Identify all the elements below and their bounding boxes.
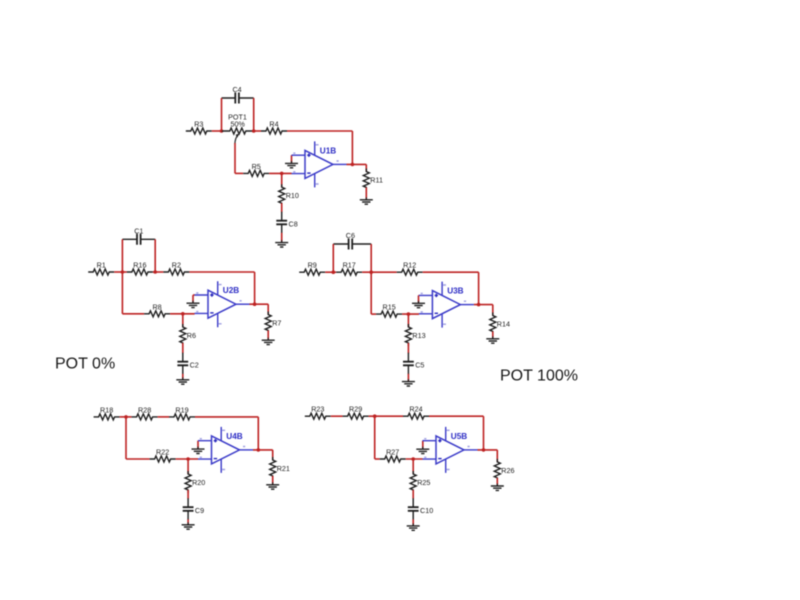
op-amp U1B <box>292 141 347 187</box>
svg-text:R22: R22 <box>156 448 169 457</box>
ground <box>360 197 373 204</box>
wire <box>272 476 274 484</box>
wire <box>407 343 409 353</box>
ground <box>491 484 504 491</box>
svg-text:R13: R13 <box>412 331 425 340</box>
svg-text:R6: R6 <box>187 331 196 340</box>
ground <box>187 301 200 308</box>
wire <box>496 450 498 462</box>
wire <box>406 458 423 460</box>
capacitor C2 <box>177 353 198 374</box>
svg-text:R18: R18 <box>100 405 113 414</box>
svg-text:POT 0%: POT 0% <box>55 356 115 373</box>
wire <box>120 416 132 418</box>
wire <box>492 332 494 339</box>
ground <box>486 336 499 343</box>
node b4 <box>253 302 257 306</box>
wire <box>254 272 256 304</box>
resistor R11 <box>363 169 383 191</box>
svg-text:R2: R2 <box>172 261 181 270</box>
wire <box>267 304 269 314</box>
wire <box>371 313 376 315</box>
svg-text:R10: R10 <box>286 191 299 200</box>
svg-text:U3B: U3B <box>447 287 463 296</box>
wire <box>478 272 480 304</box>
resistor R12 <box>397 261 423 276</box>
ground <box>402 379 415 386</box>
wire <box>418 295 420 302</box>
wire <box>114 271 127 273</box>
svg-text:C4: C4 <box>232 85 241 94</box>
op-amp U3B <box>419 282 474 328</box>
resistor R27 <box>380 448 406 463</box>
resistor R9 <box>299 261 325 276</box>
svg-text:U2B: U2B <box>223 286 239 295</box>
svg-text:C10: C10 <box>420 506 433 515</box>
svg-text:C6: C6 <box>346 231 355 240</box>
svg-text:R9: R9 <box>308 261 317 270</box>
capacitor C10 <box>408 498 433 519</box>
resistor R21 <box>270 457 290 479</box>
ground <box>176 377 189 384</box>
wire <box>154 239 156 272</box>
wire <box>197 441 199 449</box>
wire <box>291 155 293 163</box>
wire <box>492 305 494 316</box>
wire <box>325 271 336 273</box>
wire <box>187 459 189 474</box>
wire <box>272 450 274 460</box>
wire <box>429 415 484 417</box>
svg-text:R20: R20 <box>192 478 205 487</box>
wire <box>375 458 380 460</box>
resistor R16 <box>127 261 153 276</box>
wire <box>422 441 424 449</box>
op-amp U4B <box>198 427 253 473</box>
wire <box>195 416 258 418</box>
wire <box>483 416 485 450</box>
wire <box>423 271 479 273</box>
wire <box>407 374 409 381</box>
wire <box>478 449 498 451</box>
wire <box>365 188 367 200</box>
node a4 <box>351 163 355 167</box>
wire <box>122 313 144 315</box>
resistor R8 <box>144 302 170 317</box>
node c2 <box>369 270 373 274</box>
wire <box>418 294 420 296</box>
capacitor C8 <box>276 212 297 233</box>
svg-text:50%: 50% <box>231 120 246 129</box>
svg-text:C5: C5 <box>415 360 424 369</box>
ground <box>192 447 205 454</box>
node b1 <box>121 270 125 274</box>
ground <box>412 301 425 308</box>
resistor R7 <box>265 312 281 334</box>
wire <box>189 271 254 273</box>
ground <box>407 523 420 530</box>
wire <box>253 449 273 451</box>
svg-text:R15: R15 <box>383 303 396 312</box>
svg-text:R14: R14 <box>497 320 510 329</box>
capacitor C1 <box>122 226 155 244</box>
node e3 <box>482 448 486 452</box>
svg-text:U1B: U1B <box>320 146 336 155</box>
wire <box>267 331 269 340</box>
resistor R29 <box>343 405 369 420</box>
svg-text:R21: R21 <box>277 464 290 473</box>
svg-text:R17: R17 <box>343 261 356 270</box>
wire <box>254 130 261 132</box>
node d2 <box>186 457 190 461</box>
wire <box>158 416 169 418</box>
resistor R20 <box>185 471 205 493</box>
wire <box>331 415 343 417</box>
capacitor C5 <box>403 353 424 374</box>
svg-text:R16: R16 <box>133 261 146 270</box>
svg-text:C2: C2 <box>190 360 199 369</box>
node a1 <box>220 129 224 133</box>
resistor R15 <box>376 303 402 318</box>
resistor R19 <box>169 405 195 420</box>
wire <box>362 271 397 273</box>
svg-text:R26: R26 <box>501 466 514 475</box>
node a3 <box>280 172 284 176</box>
wire <box>250 303 269 305</box>
capacitor C6 <box>333 231 371 249</box>
resistor R1 <box>88 261 114 276</box>
node c3 <box>407 312 411 316</box>
ground <box>182 522 195 529</box>
resistor R2 <box>163 261 189 276</box>
resistor R24 <box>403 405 429 420</box>
node d1 <box>124 415 128 419</box>
wire <box>121 239 123 313</box>
resistor R10 <box>279 184 299 206</box>
wire <box>332 244 334 272</box>
svg-text:R8: R8 <box>152 302 161 311</box>
svg-text:R25: R25 <box>417 478 430 487</box>
wire <box>402 313 419 315</box>
resistor R28 <box>132 405 158 420</box>
ground <box>416 447 429 454</box>
svg-text:R1: R1 <box>97 261 106 270</box>
wire <box>474 304 493 306</box>
wire <box>235 172 243 174</box>
resistor R25 <box>410 471 430 493</box>
svg-text:R7: R7 <box>272 319 281 328</box>
svg-text:R5: R5 <box>252 162 261 171</box>
wire <box>153 271 164 273</box>
wire <box>125 417 127 459</box>
resistor R17 <box>336 261 362 276</box>
resistor R6 <box>180 324 196 346</box>
potentiometer POT1 50% <box>222 128 255 144</box>
wire <box>257 417 259 450</box>
svg-text:R4: R4 <box>269 120 278 129</box>
svg-text:R12: R12 <box>403 261 416 270</box>
svg-text:R3: R3 <box>194 120 203 129</box>
resistor R18 <box>94 405 120 420</box>
resistor R23 <box>305 405 331 420</box>
node b3 <box>181 312 185 316</box>
resistor R22 <box>150 448 176 463</box>
resistor R3 <box>186 120 212 135</box>
resistor R5 <box>243 162 269 177</box>
node e2 <box>411 457 415 461</box>
wire <box>221 98 223 131</box>
wire <box>182 343 184 353</box>
wire <box>212 130 222 132</box>
wire <box>182 374 184 379</box>
node a2 <box>252 129 256 133</box>
wire <box>496 478 498 486</box>
wire <box>374 416 376 459</box>
node b2 <box>153 270 157 274</box>
wire <box>287 130 352 132</box>
wire <box>193 294 195 296</box>
wire <box>192 295 194 303</box>
ground <box>285 161 298 168</box>
ground <box>266 482 279 489</box>
wire <box>412 459 414 474</box>
wire <box>412 519 414 525</box>
capacitor C4 <box>222 85 254 103</box>
node c1 <box>332 270 336 274</box>
resistor R13 <box>405 324 425 346</box>
wire <box>347 163 367 165</box>
svg-text:R11: R11 <box>370 176 383 185</box>
svg-text:C8: C8 <box>289 219 298 228</box>
wire <box>187 490 189 499</box>
wire <box>269 172 291 174</box>
node e1 <box>373 414 377 418</box>
resistor R26 <box>494 459 514 481</box>
wire pot wiper <box>234 143 236 173</box>
wire <box>187 519 189 524</box>
svg-text:R19: R19 <box>175 405 188 414</box>
svg-text:U4B: U4B <box>226 432 242 441</box>
svg-text:R29: R29 <box>349 405 362 414</box>
wire <box>170 313 195 315</box>
wire <box>176 458 198 460</box>
svg-text:C1: C1 <box>134 226 143 235</box>
wire <box>281 233 283 242</box>
wire <box>412 490 414 499</box>
wire <box>365 164 367 171</box>
svg-text:U5B: U5B <box>451 432 467 441</box>
wire <box>281 203 283 212</box>
wire <box>126 458 150 460</box>
node c4 <box>477 303 481 307</box>
op-amp U5B <box>423 427 478 473</box>
resistor R4 <box>261 120 287 135</box>
svg-text:C9: C9 <box>195 506 204 515</box>
ground <box>262 338 275 345</box>
resistor R14 <box>490 313 510 335</box>
wire <box>253 98 255 131</box>
svg-text:R28: R28 <box>138 405 151 414</box>
wire <box>407 314 409 327</box>
capacitor C9 <box>183 498 204 519</box>
wire <box>351 131 353 164</box>
svg-text:R27: R27 <box>386 448 399 457</box>
ground <box>275 240 288 247</box>
svg-text:POT 100%: POT 100% <box>500 368 578 385</box>
svg-text:R24: R24 <box>409 405 422 414</box>
wire <box>370 244 372 314</box>
node d3 <box>257 448 261 452</box>
wire <box>182 314 184 327</box>
svg-text:R23: R23 <box>311 405 324 414</box>
op-amp U2B <box>195 281 250 327</box>
wire <box>281 173 283 187</box>
wire <box>369 415 403 417</box>
